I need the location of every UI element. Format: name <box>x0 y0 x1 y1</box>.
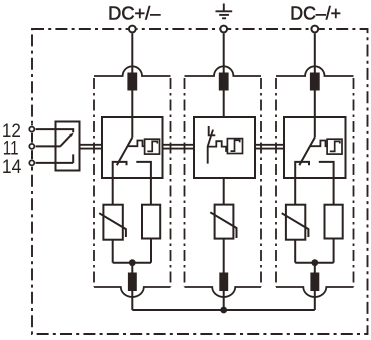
svg-text:14: 14 <box>2 156 22 178</box>
svg-text:DC–/+: DC–/+ <box>290 3 341 23</box>
svg-text:DC+/–: DC+/– <box>108 3 160 23</box>
